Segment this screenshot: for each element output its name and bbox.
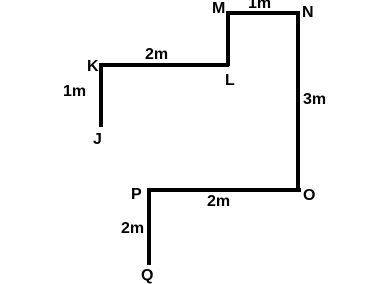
- wire segment PO (bottom horizontal): [147, 188, 301, 192]
- value label 2m (segment KL): [145, 47, 168, 63]
- node M: [212, 1, 225, 17]
- node L: [225, 73, 235, 89]
- node P: [131, 187, 142, 203]
- value label 2m (segment PQ): [121, 221, 144, 237]
- node K: [87, 59, 99, 75]
- wire segment NO (right vertical): [296, 11, 300, 191]
- wire segment PQ (bottom vertical): [147, 188, 151, 265]
- value label 3m (segment NO): [303, 92, 326, 108]
- wire segment KJ (left vertical): [99, 63, 103, 127]
- node N: [302, 5, 314, 21]
- node O: [303, 188, 315, 204]
- value label 1m (segment MN): [248, 0, 271, 12]
- wire segment MN (top horizontal): [226, 11, 300, 15]
- node Q: [141, 268, 153, 284]
- wire segment KL (horizontal): [99, 63, 229, 67]
- wire segment ML (vertical): [226, 11, 230, 66]
- value label 1m (segment KJ): [63, 84, 86, 100]
- value label 2m (segment PO): [207, 194, 230, 210]
- node J: [93, 132, 102, 148]
